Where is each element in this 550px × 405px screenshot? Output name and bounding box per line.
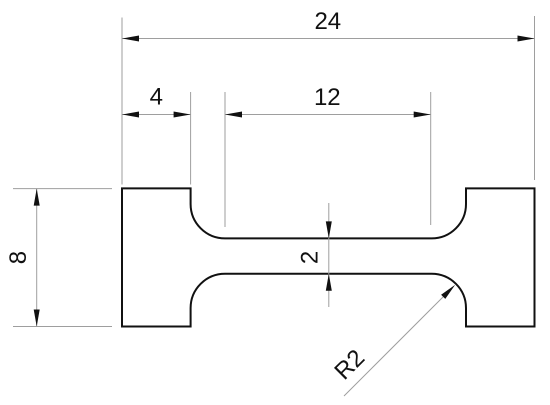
dimension line 4 [122,114,191,116]
svg-text:4: 4 [150,84,163,111]
arrow 2 top (pointing down) [326,221,332,238]
dimension line 8 [36,189,38,327]
extension line x=430.7 (12 right) [430,92,432,225]
arrow R2 (pointing up-right at fillet) [441,285,455,299]
extension line left x=122 [121,18,123,185]
arrow 8 bottom [34,310,40,327]
extension line top y=188.6 (8) [13,188,112,190]
arrow 8 top [34,189,40,206]
arrow 4 left [122,112,139,118]
svg-text:2: 2 [297,251,324,264]
arrow 2 bottom (pointing up) [326,274,332,291]
arrow 12 right [414,112,431,118]
extension line right x=534.5 [534,16,536,180]
svg-text:24: 24 [314,8,341,35]
specimen outline (dog-bone profile) [122,188,535,326]
extension line bottom y=326.5 (8) [13,326,112,328]
dimension line 2 (vertical through narrow section) [328,203,330,307]
leader line R2 [344,295,445,396]
arrow 24 right [518,36,535,42]
svg-text:8: 8 [5,251,32,264]
svg-text:12: 12 [314,84,341,111]
arrow 12 left [225,112,242,118]
extension line x=225 (12 left) [224,92,226,227]
dimension line 24 [122,38,535,40]
dimension line 12 [225,114,431,116]
arrow 4 right [174,112,191,118]
extension line x=190.6 (4 right) [190,92,192,185]
arrow 24 left [122,36,139,42]
